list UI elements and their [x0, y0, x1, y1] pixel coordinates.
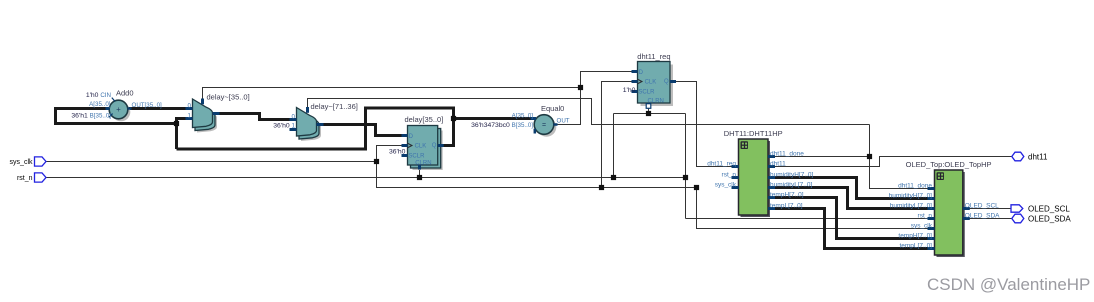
svg-text:rst_n: rst_n	[918, 213, 933, 220]
svg-text:36'h0 1: 36'h0 1	[273, 123, 295, 130]
svg-text:dht11_req: dht11_req	[707, 161, 736, 168]
svg-text:CLK: CLK	[415, 144, 427, 150]
svg-text:1'h0: 1'h0	[623, 87, 636, 94]
svg-text:tempL[7..0]: tempL[7..0]	[770, 203, 803, 210]
svg-text:rst_n: rst_n	[722, 172, 737, 179]
svg-text:DHT11:DHT11HP: DHT11:DHT11HP	[724, 129, 783, 138]
svg-text:D: D	[639, 70, 644, 76]
svg-text:sys_clk: sys_clk	[715, 182, 737, 189]
svg-text:A[35..0]: A[35..0]	[89, 101, 111, 108]
svg-text:tempL[7..0]: tempL[7..0]	[899, 243, 932, 250]
svg-text:tempH[7..0]: tempH[7..0]	[898, 233, 932, 240]
svg-text:delay~[71..36]: delay~[71..36]	[311, 102, 358, 111]
svg-text:Equal0: Equal0	[541, 104, 564, 113]
svg-text:+: +	[116, 105, 121, 114]
svg-text:sys_clk: sys_clk	[911, 223, 933, 230]
svg-text:36'h3473bc0 B[35..0]: 36'h3473bc0 B[35..0]	[471, 122, 533, 129]
svg-text:OUT[35..0]: OUT[35..0]	[132, 102, 163, 109]
svg-text:humidityH[7..0]: humidityH[7..0]	[889, 193, 933, 200]
svg-text:1: 1	[188, 113, 192, 120]
svg-text:OLED_Top:OLED_TopHP: OLED_Top:OLED_TopHP	[906, 160, 992, 169]
svg-text:36'h0: 36'h0	[389, 148, 406, 155]
svg-text:OUT: OUT	[557, 118, 570, 125]
svg-text:=: =	[542, 122, 546, 129]
svg-text:OLED_SDA: OLED_SDA	[1028, 214, 1071, 223]
svg-text:A[35..0]: A[35..0]	[512, 112, 534, 119]
svg-text:humidityL[7..0]: humidityL[7..0]	[890, 203, 932, 210]
svg-text:Add0: Add0	[116, 89, 134, 98]
svg-text:OLED_SCL: OLED_SCL	[965, 203, 999, 210]
svg-text:1'h0 CIN: 1'h0 CIN	[86, 92, 111, 99]
svg-text:OLED_SCL: OLED_SCL	[1028, 204, 1070, 213]
svg-text:SCLR: SCLR	[638, 90, 655, 96]
svg-text:dht11_req: dht11_req	[637, 52, 670, 61]
svg-text:sys_clk: sys_clk	[10, 159, 33, 166]
svg-text:CLRN: CLRN	[415, 161, 431, 167]
svg-text:CSDN @ValentineHP: CSDN @ValentineHP	[927, 275, 1090, 294]
svg-text:delay[35..0]: delay[35..0]	[405, 115, 444, 124]
svg-text:humidityH[7..0]: humidityH[7..0]	[770, 172, 814, 179]
svg-text:dht11_done: dht11_done	[770, 151, 804, 158]
svg-text:Q: Q	[664, 79, 669, 85]
svg-text:CLK: CLK	[645, 80, 657, 86]
svg-text:36'h1 B[35..0]: 36'h1 B[35..0]	[71, 113, 111, 120]
svg-text:delay~[35..0]: delay~[35..0]	[207, 92, 250, 101]
svg-text:Q: Q	[432, 143, 437, 149]
svg-text:dht11_done: dht11_done	[898, 183, 932, 190]
svg-text:tempH[7..0]: tempH[7..0]	[770, 192, 804, 199]
svg-text:OLED_SDA: OLED_SDA	[965, 213, 1000, 220]
svg-text:SCLR: SCLR	[408, 154, 425, 160]
svg-text:0: 0	[292, 114, 296, 121]
svg-text:0: 0	[188, 103, 192, 110]
svg-text:dht11: dht11	[1028, 152, 1048, 161]
svg-text:D: D	[409, 134, 414, 140]
svg-text:dht11: dht11	[770, 161, 786, 168]
svg-text:rst_n: rst_n	[17, 175, 33, 182]
svg-text:humidityL[7..0]: humidityL[7..0]	[770, 182, 812, 189]
